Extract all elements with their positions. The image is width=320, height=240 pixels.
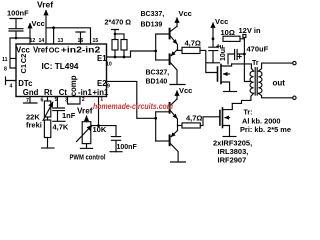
svg-text:Vref: Vref xyxy=(37,0,53,10)
svg-text:8: 8 xyxy=(4,67,7,73)
svg-text:Vcc: Vcc xyxy=(179,86,192,95)
terminal 12V in xyxy=(243,35,246,39)
wire secondary to out terminals xyxy=(258,61,296,99)
ground under Q4 collector xyxy=(171,161,186,163)
svg-text:4,7Ω: 4,7Ω xyxy=(185,38,201,47)
wire Vref to OC (pin13) and -in2 (pin15) xyxy=(46,26,91,44)
ground under Q2 collector xyxy=(170,84,185,86)
potentiometer 10K (PWM control) xyxy=(77,122,92,149)
Vcc arrow (driver 2) xyxy=(176,91,178,99)
transistor Q2 BC327/BD140 (PNP, driver 1 bottom) xyxy=(156,50,178,85)
wire comp(3) to -in1(2) jumper xyxy=(68,97,81,105)
transistor Q6 lower MOSFET xyxy=(220,103,232,136)
svg-text:10uF: 10uF xyxy=(220,44,227,61)
svg-text:12V in: 12V in xyxy=(239,26,262,35)
IC U1 TL494 box xyxy=(16,44,107,97)
svg-text:C1: C1 xyxy=(19,64,28,74)
svg-text:6: 6 xyxy=(41,97,44,103)
transformer core xyxy=(255,68,257,95)
svg-text:Gnd: Gnd xyxy=(23,88,39,97)
resistor 4,7K xyxy=(44,117,50,148)
svg-text:Al kb. 2000: Al kb. 2000 xyxy=(242,118,281,125)
ground tick pin 16 (+in2) xyxy=(76,32,85,44)
svg-text:4: 4 xyxy=(10,84,13,90)
svg-text:Ct: Ct xyxy=(59,88,68,97)
wire +in1 node xyxy=(93,97,117,128)
svg-text:Tr:: Tr: xyxy=(244,110,253,117)
svg-text:E2: E2 xyxy=(97,79,107,88)
svg-text:100nF: 100nF xyxy=(117,144,138,151)
ground under 1nF xyxy=(53,120,65,122)
wire primary bottom to lower drain xyxy=(232,93,253,103)
capacitor 470uF xyxy=(228,50,246,64)
Vcc arrow (top right rail) xyxy=(212,23,215,47)
resistor 2*470 pullups xyxy=(112,30,128,58)
svg-text:10: 10 xyxy=(106,62,112,68)
svg-text:Vref: Vref xyxy=(33,46,48,55)
wire Vcc rail to C1 C2 pins xyxy=(10,38,30,68)
transformer Tr secondary winding xyxy=(258,71,262,93)
svg-text:Vcc: Vcc xyxy=(179,9,192,18)
svg-text:BC327,: BC327, xyxy=(146,70,170,77)
transistor Q4 (PNP, driver 2 bottom) xyxy=(156,126,178,162)
svg-text:10K: 10K xyxy=(93,125,107,134)
svg-text:9: 9 xyxy=(107,84,110,90)
svg-text:BC337,: BC337, xyxy=(141,11,165,18)
svg-text:BD140: BD140 xyxy=(146,79,168,86)
svg-text:2: 2 xyxy=(82,97,85,103)
svg-text:16: 16 xyxy=(78,38,84,44)
svg-text:out: out xyxy=(273,79,286,88)
transistor Q1 BC337/BD139 (NPN, driver 1 top) xyxy=(156,18,178,60)
svg-text:Rt: Rt xyxy=(44,88,53,97)
transformer Tr primary winding xyxy=(250,71,254,93)
resistor 4,7 Ohm (gate, upper) xyxy=(178,47,218,72)
svg-text:Vcc: Vcc xyxy=(32,19,45,28)
svg-text:DTc: DTc xyxy=(18,79,33,88)
capacitor 100nF (+in1 filter) xyxy=(111,126,120,152)
svg-text:+in2-in2: +in2-in2 xyxy=(61,46,101,55)
svg-text:14: 14 xyxy=(39,38,45,44)
svg-text:10Ω: 10Ω xyxy=(221,28,235,37)
terminal DTc pin 4 xyxy=(6,77,17,85)
svg-text:13: 13 xyxy=(58,38,64,44)
wire E2 to driver 2 base xyxy=(107,81,158,119)
svg-text:1nF: 1nF xyxy=(62,111,76,120)
svg-text:freki: freki xyxy=(26,121,42,130)
svg-text:homemade-circuits.com: homemade-circuits.com xyxy=(93,102,173,111)
svg-text:11: 11 xyxy=(2,57,8,63)
svg-text:4,7K: 4,7K xyxy=(53,123,69,132)
svg-text:4,7Ω: 4,7Ω xyxy=(186,114,202,123)
svg-text:2*470 Ω: 2*470 Ω xyxy=(105,18,132,27)
ground under Q6 source xyxy=(223,136,236,138)
svg-text:470uF: 470uF xyxy=(247,45,269,54)
resistor 10 Ohm xyxy=(223,36,244,41)
Vcc arrow (IC pin 12 supply) xyxy=(29,24,31,45)
svg-text:Tr: Tr xyxy=(252,60,259,67)
resistor 4,7 Ohm (gate, lower) xyxy=(178,117,220,128)
svg-text:OC: OC xyxy=(49,46,60,55)
ground under pin 7 xyxy=(24,97,38,104)
ground under 4,7K xyxy=(42,147,55,149)
svg-text:IRF2907: IRF2907 xyxy=(218,155,247,164)
Vref arrow (IC pin 14) xyxy=(45,11,47,45)
ground under 100nF xyxy=(110,151,122,153)
ground under 10K pot xyxy=(80,147,92,149)
svg-text:C2: C2 xyxy=(19,54,28,64)
svg-text:BD139: BD139 xyxy=(141,22,163,29)
svg-text:Vcc: Vcc xyxy=(16,46,31,55)
svg-text:100nF: 100nF xyxy=(7,9,29,18)
capacitor 100nF (Vcc decoupling, top-left) xyxy=(9,19,23,40)
capacitor 1nF (Ct) xyxy=(53,97,65,122)
ground under 10uF xyxy=(207,62,220,64)
wire 12V rail to center tap xyxy=(244,39,250,82)
Vref arrow (10K pot top) xyxy=(86,116,88,122)
svg-text:Pri: kb. 2*5 me: Pri: kb. 2*5 me xyxy=(240,127,291,134)
svg-text:IC: TL494: IC: TL494 xyxy=(42,62,80,71)
potentiometer 22K freki (Rt) xyxy=(43,97,53,121)
svg-text:PWM control: PWM control xyxy=(70,154,106,161)
wire E1 to driver 1 base xyxy=(107,50,158,59)
ground under Q5 source xyxy=(224,91,237,93)
capacitor 10uF (Vcc filter) xyxy=(209,45,220,63)
wire upper drain to primary top xyxy=(232,64,254,71)
svg-text:12: 12 xyxy=(30,38,36,44)
transistor Q3 (NPN, driver 2 top) xyxy=(156,99,178,141)
svg-text:-in1: -in1 xyxy=(78,88,93,97)
svg-text:15: 15 xyxy=(93,38,99,44)
transistor Q5 upper MOSFET xyxy=(218,64,232,91)
svg-text:comp: comp xyxy=(69,75,78,96)
svg-text:Vcc: Vcc xyxy=(215,17,228,26)
svg-text:Vref: Vref xyxy=(77,107,93,116)
